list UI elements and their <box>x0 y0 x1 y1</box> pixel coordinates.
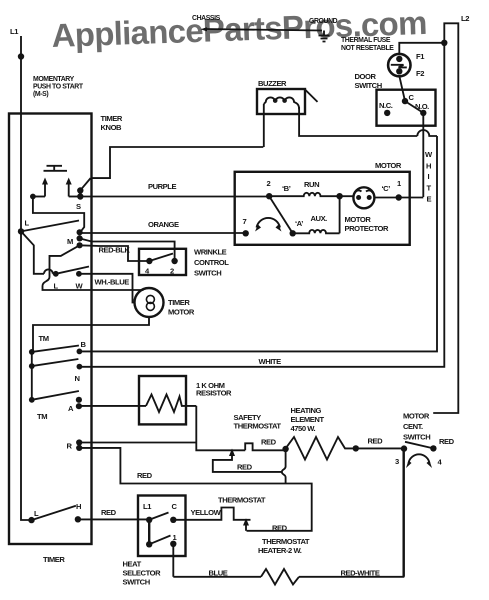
svg-text:RED: RED <box>137 471 153 480</box>
switch arm TM-N <box>32 359 79 366</box>
wire timer motor return <box>33 317 149 352</box>
svg-text:THERMOSTAT: THERMOSTAT <box>262 537 310 546</box>
cent switch arrow arc <box>406 454 432 468</box>
svg-text:TIMER: TIMER <box>168 298 190 307</box>
svg-text:RED-WHITE: RED-WHITE <box>341 569 380 578</box>
svg-text:‘A’: ‘A’ <box>295 219 303 228</box>
aux winding coil <box>293 230 340 233</box>
safety thermostat bypass jog <box>282 449 286 484</box>
svg-text:HEATER-2 W.: HEATER-2 W. <box>258 546 302 555</box>
label momentary push to start <box>33 76 84 98</box>
wire PURPLE <box>80 182 269 197</box>
svg-text:L2: L2 <box>461 14 469 23</box>
switch arm L up <box>21 221 79 232</box>
wire N to L2 side <box>79 43 444 367</box>
wire fuse to L2 bus <box>399 43 444 55</box>
svg-text:MOTOR: MOTOR <box>345 215 372 224</box>
svg-text:THERMOSTAT: THERMOSTAT <box>234 422 282 431</box>
terminal 4 <box>430 445 442 466</box>
wire L2 bus <box>433 23 458 413</box>
svg-text:ELEMENT: ELEMENT <box>291 415 325 424</box>
switch arm L-H <box>32 506 76 520</box>
wire arrows to S <box>69 196 81 198</box>
node motor junction <box>336 193 342 199</box>
terminal B <box>77 340 87 354</box>
wire left contact to M <box>33 197 84 233</box>
heat selector switch box <box>138 496 186 557</box>
label WHITE vertical <box>425 150 433 204</box>
label WHITE <box>259 357 282 366</box>
wire resistor to safety thermostat <box>196 406 245 450</box>
TM contacts left <box>29 349 35 403</box>
svg-text:CONTROL: CONTROL <box>194 258 229 267</box>
timer motor TM <box>135 288 195 317</box>
svg-text:WHITE: WHITE <box>259 357 282 366</box>
terminal 2 <box>266 179 272 199</box>
svg-text:TIMER: TIMER <box>43 555 65 564</box>
svg-text:N: N <box>75 374 80 383</box>
motor box <box>235 161 410 245</box>
svg-text:THERMOSTAT: THERMOSTAT <box>218 496 266 505</box>
motor arrow arc <box>255 218 282 232</box>
node L2 <box>461 14 469 23</box>
operating thermostat symbol <box>173 508 250 520</box>
node CHASSIS <box>192 15 221 22</box>
terminal L timer <box>18 219 30 235</box>
aux winding label <box>311 214 328 223</box>
terminal 7 <box>243 217 249 237</box>
thermal fuse label <box>341 37 394 52</box>
wire 1 to bottom <box>172 544 174 577</box>
safety thermostat labels <box>234 413 282 431</box>
svg-text:PURPLE: PURPLE <box>148 182 176 191</box>
door switch label <box>355 72 382 90</box>
terminal S <box>76 187 84 211</box>
wire S arm to buzzer <box>91 147 264 178</box>
junction L2 fuse <box>441 40 447 46</box>
wire ORANGE <box>80 220 246 233</box>
svg-text:MOTOR: MOTOR <box>403 412 430 421</box>
terminal L contact <box>53 271 59 291</box>
terminal C heat <box>170 517 176 523</box>
resistor box <box>139 376 232 424</box>
svg-text:KNOB: KNOB <box>101 123 123 132</box>
motor centrifugal switch labels <box>403 412 430 442</box>
push-to-start arrow left <box>42 178 48 197</box>
wire L1 to lower contact <box>148 520 150 545</box>
buzzer coil <box>264 97 299 109</box>
switch arm S <box>80 178 90 190</box>
terminal N.C. <box>379 101 393 116</box>
wire hop over door switch drop <box>417 130 437 136</box>
thermostat actuator arrow <box>243 518 288 532</box>
svg-text:RED: RED <box>237 463 253 472</box>
wire BLUE bottom <box>173 569 261 578</box>
svg-text:L1: L1 <box>143 502 152 511</box>
svg-text:DOOR: DOOR <box>355 72 377 81</box>
resistor R 1K zigzag <box>146 395 196 413</box>
wire 3 to bottom <box>403 449 405 577</box>
svg-text:4750 W.: 4750 W. <box>291 424 316 433</box>
wire WH.-BLUE <box>79 274 135 303</box>
wire aux to junction <box>339 196 341 233</box>
run winding label <box>304 180 319 189</box>
wire R upper <box>79 442 196 444</box>
terminal C motor / 1 <box>382 179 403 201</box>
wire fuse to door switch C <box>399 76 405 101</box>
svg-text:WH.-BLUE: WH.-BLUE <box>95 278 130 287</box>
wire RED element to switch 3 <box>356 437 404 449</box>
wire protector to C <box>374 197 423 199</box>
svg-text:BUZZER: BUZZER <box>258 79 287 88</box>
run winding coil <box>269 193 339 196</box>
thermal fuse F1 F2 <box>388 52 425 78</box>
terminal 'A' <box>290 219 304 237</box>
wire M arm to timer motor <box>43 245 144 290</box>
thermostat heater 2W zigzag <box>261 569 299 585</box>
heating element 4750W zigzag <box>286 437 356 460</box>
wire L to lower contact <box>21 231 56 273</box>
svg-text:MOTOR: MOTOR <box>375 161 402 170</box>
svg-text:F1: F1 <box>416 52 425 61</box>
thermostat heater labels <box>258 537 310 555</box>
bottom timer switch L <box>28 509 39 523</box>
switch arm heat lower <box>149 536 170 545</box>
wire A to resistor <box>79 405 146 407</box>
switch arm motor start <box>269 196 293 233</box>
terminal N.O. <box>415 102 429 116</box>
wire RED-BLK to wrinkle 4 <box>80 245 150 261</box>
wire hop <box>44 269 53 273</box>
wire R lower red <box>79 448 312 531</box>
wire M to wrinkle 2 <box>80 238 175 261</box>
svg-text:‘B’: ‘B’ <box>282 184 291 193</box>
svg-text:SELECTOR: SELECTOR <box>123 569 162 578</box>
svg-text:ORANGE: ORANGE <box>148 220 179 229</box>
svg-text:RED-BLK: RED-BLK <box>99 246 131 255</box>
node heating element junction <box>282 446 288 452</box>
wire junction to protector <box>340 195 354 197</box>
watermark <box>51 4 427 54</box>
switch arm cent <box>405 442 433 449</box>
label TIMER <box>43 555 65 564</box>
motor protector <box>345 187 389 233</box>
bottom timer switch H <box>75 502 81 523</box>
heat lower contact <box>146 541 152 547</box>
svg-text:CENT.: CENT. <box>403 422 423 431</box>
svg-text:HEATING: HEATING <box>291 406 322 415</box>
svg-text:RED: RED <box>261 438 277 447</box>
terminal M <box>67 229 83 248</box>
svg-text:RED: RED <box>368 437 384 446</box>
svg-text:AUX.: AUX. <box>311 214 328 223</box>
svg-text:2: 2 <box>170 267 174 276</box>
wrinkle control switch box <box>139 248 229 278</box>
switch arm TM-B <box>32 346 79 352</box>
label TM lower <box>37 412 47 421</box>
switch arm heat upper <box>149 513 168 520</box>
svg-text:TM: TM <box>39 334 49 343</box>
node element right <box>353 445 359 451</box>
wire N.O. to motor C <box>422 113 424 197</box>
terminal 4 wrinkle <box>145 258 153 276</box>
wire L1 bus <box>21 36 32 520</box>
svg-text:H: H <box>426 162 431 171</box>
label RED at 4 <box>439 437 455 446</box>
heating element labels <box>291 406 325 433</box>
svg-text:YELLOW: YELLOW <box>191 508 222 517</box>
node L1 <box>10 27 19 36</box>
svg-text:WRINKLE: WRINKLE <box>194 248 227 257</box>
svg-text:BLUE: BLUE <box>209 569 228 578</box>
svg-text:TIMER: TIMER <box>101 114 123 123</box>
terminal L1 heat <box>146 517 152 523</box>
push-to-start left contact <box>30 194 45 200</box>
safety thermostat actuator arrow <box>213 449 282 472</box>
svg-text:L1: L1 <box>10 27 19 36</box>
svg-text:SWITCH: SWITCH <box>194 269 221 278</box>
ground <box>319 31 330 42</box>
push-to-start arrow right <box>66 178 72 197</box>
svg-text:HEAT: HEAT <box>123 560 142 569</box>
svg-text:2: 2 <box>267 179 271 188</box>
svg-text:N.C.: N.C. <box>379 101 393 110</box>
terminal A <box>68 397 82 413</box>
svg-text:RED: RED <box>439 437 455 446</box>
switch arm wrinkle <box>149 254 173 262</box>
wire YELLOW <box>191 508 222 517</box>
terminal 1 heat <box>170 541 176 547</box>
switch arm door <box>405 101 423 113</box>
svg-text:(M-S): (M-S) <box>33 91 48 98</box>
wire chassis to ground <box>201 27 323 31</box>
svg-text:S: S <box>76 202 81 211</box>
svg-text:H: H <box>76 502 81 511</box>
svg-text:RED: RED <box>272 524 288 533</box>
terminal C door <box>402 93 415 104</box>
svg-text:F2: F2 <box>416 69 424 78</box>
svg-text:E: E <box>427 195 432 204</box>
wire RED H to heat selector <box>78 508 149 519</box>
svg-text:MOMENTARY: MOMENTARY <box>33 76 75 83</box>
svg-text:PROTECTOR: PROTECTOR <box>345 224 389 233</box>
svg-text:RED: RED <box>101 508 117 517</box>
safety thermostat symbol <box>245 438 285 451</box>
wire B white <box>79 136 437 351</box>
node GROUND <box>309 18 338 25</box>
svg-text:RUN: RUN <box>304 180 319 189</box>
terminal R <box>67 439 83 451</box>
svg-text:NOT RESETABLE: NOT RESETABLE <box>341 45 394 52</box>
timer knob box <box>9 114 123 545</box>
switch arm L-W <box>56 267 89 274</box>
svg-text:SWITCH: SWITCH <box>403 433 430 442</box>
push-to-start button actuator <box>44 166 68 171</box>
terminal N <box>75 364 83 383</box>
svg-text:SWITCH: SWITCH <box>123 578 150 587</box>
heat selector labels <box>123 560 162 587</box>
label THERMOSTAT bottom <box>218 496 266 505</box>
terminal 3 <box>395 445 407 466</box>
buzzer right leg <box>299 107 417 136</box>
svg-text:TM: TM <box>37 412 47 421</box>
terminal 2 wrinkle <box>170 258 178 276</box>
door switch box <box>377 90 436 126</box>
label TM upper <box>39 334 49 343</box>
junction on L1 bus <box>18 53 24 59</box>
svg-text:MOTOR: MOTOR <box>168 308 195 317</box>
svg-text:PUSH TO START: PUSH TO START <box>33 84 84 91</box>
svg-text:3: 3 <box>395 457 399 466</box>
terminal W <box>76 271 84 291</box>
buzzer label <box>258 79 287 88</box>
label 'B' <box>282 184 291 193</box>
buzzer left leg <box>263 104 265 147</box>
buzzer box <box>257 89 305 114</box>
svg-text:7: 7 <box>243 217 247 226</box>
svg-text:RESISTOR: RESISTOR <box>196 389 232 398</box>
buzzer flag <box>305 89 318 102</box>
switch arm TM-A <box>32 391 79 400</box>
svg-text:‘C’: ‘C’ <box>382 184 391 193</box>
wire RED-WHITE <box>299 451 403 578</box>
svg-text:M: M <box>67 237 73 246</box>
